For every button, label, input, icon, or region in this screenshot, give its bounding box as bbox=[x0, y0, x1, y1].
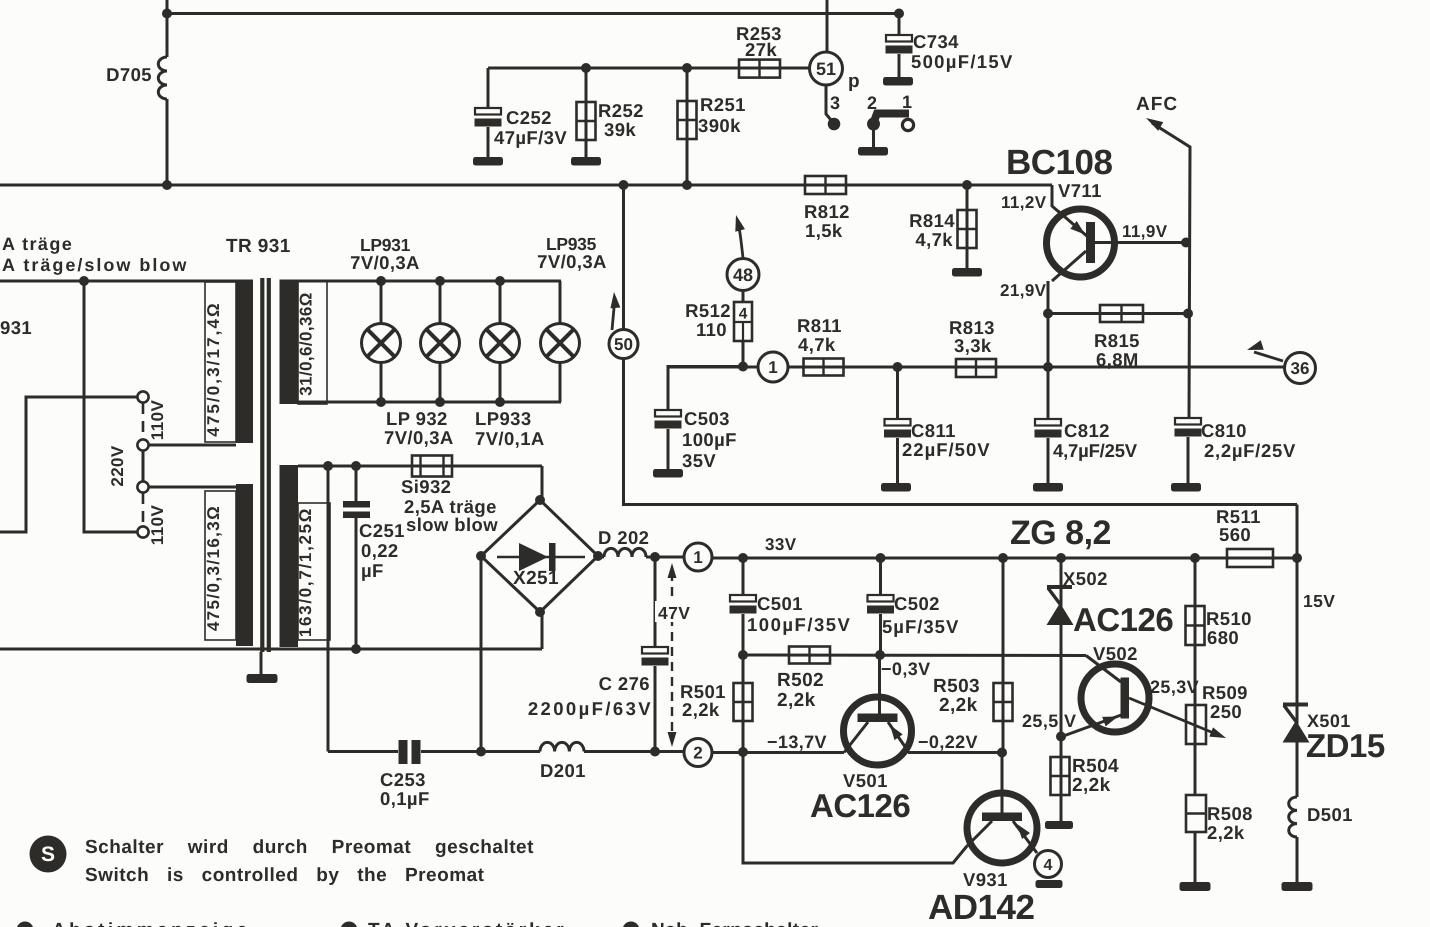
label R814 bbox=[909, 210, 955, 250]
wire 15V column bbox=[1296, 505, 1299, 593]
node junction rail-D705 bbox=[162, 180, 172, 190]
svg-text:C501: C501 bbox=[757, 593, 803, 614]
note line 1 bbox=[85, 837, 534, 858]
label pin 2 bbox=[867, 93, 877, 113]
node 50 bbox=[609, 330, 638, 359]
svg-text:0,1µF: 0,1µF bbox=[380, 788, 430, 809]
svg-text:LP933: LP933 bbox=[475, 408, 532, 429]
label C 276 bbox=[528, 673, 653, 719]
wire to node 2 bbox=[655, 750, 684, 753]
svg-text:Si932: Si932 bbox=[401, 476, 451, 497]
label A träge bbox=[2, 234, 73, 254]
node junction rail x=623 bbox=[619, 180, 629, 190]
transformer primary upper winding bbox=[236, 280, 253, 444]
svg-text:33V: 33V bbox=[765, 535, 797, 554]
wire bottom rail to C253 bbox=[328, 750, 398, 753]
svg-text:D 202: D 202 bbox=[598, 527, 649, 548]
label C253 bbox=[380, 769, 430, 809]
transformer core ground stub bbox=[260, 652, 263, 675]
label D201 bbox=[540, 760, 586, 781]
svg-text:−13,7V: −13,7V bbox=[767, 732, 827, 752]
node junction C502 top bbox=[876, 553, 886, 563]
label box winding 17,4 bbox=[205, 282, 236, 442]
lamp LP931 bbox=[362, 276, 401, 407]
svg-text:V931: V931 bbox=[963, 869, 1008, 890]
svg-text:AC126: AC126 bbox=[810, 787, 910, 824]
svg-text:X502: X502 bbox=[1063, 568, 1108, 589]
node junction R510 top bbox=[1190, 553, 1200, 563]
zener diode X502 bbox=[1047, 558, 1074, 736]
wire lamp top rail bbox=[298, 280, 561, 283]
svg-text:110: 110 bbox=[696, 319, 727, 340]
svg-text:AC126: AC126 bbox=[1073, 601, 1173, 638]
resistor R512 with 4 bbox=[734, 290, 752, 366]
label A träge/slow blow bbox=[2, 255, 188, 275]
svg-text:R252: R252 bbox=[598, 100, 644, 121]
label C502 bbox=[882, 593, 959, 637]
node 48 bbox=[727, 259, 759, 291]
svg-text:−0,22V: −0,22V bbox=[918, 732, 978, 752]
svg-text:S: S bbox=[41, 843, 55, 866]
wire V931 base column bbox=[1001, 753, 1004, 814]
ground node 4 bbox=[1036, 880, 1063, 888]
node junction C276 top bbox=[650, 552, 660, 562]
label C812 bbox=[1053, 420, 1138, 461]
note S badge bbox=[30, 836, 67, 873]
label 15V bbox=[1303, 591, 1335, 611]
wire V711 emitter column bbox=[1047, 281, 1050, 419]
svg-text:110V: 110V bbox=[148, 505, 167, 546]
wire tap upper to primary bbox=[149, 444, 237, 447]
label R512 bbox=[685, 300, 731, 340]
svg-text:36: 36 bbox=[1291, 359, 1310, 378]
label LP931 bbox=[350, 235, 420, 273]
svg-text:11,9V: 11,9V bbox=[1122, 222, 1168, 241]
ground C810 bbox=[1171, 483, 1201, 492]
svg-text:100µF/35V: 100µF/35V bbox=[747, 614, 851, 635]
capacitor C812 bbox=[1035, 419, 1062, 484]
wire dashed tap upper bbox=[142, 403, 145, 439]
svg-text:4,7µF/25V: 4,7µF/25V bbox=[1053, 440, 1138, 461]
svg-text:Schalter wird durch Preomat: Schalter wird durch Preomat geschaltet bbox=[85, 837, 534, 858]
capacitor C734 bbox=[886, 14, 913, 79]
label X502 bbox=[1063, 568, 1108, 589]
resistor R510 bbox=[1186, 558, 1205, 744]
svg-text:2,2k: 2,2k bbox=[682, 699, 720, 720]
arrow node 36 bbox=[1247, 340, 1283, 361]
wire dashed tap lower bbox=[142, 493, 145, 526]
svg-text:7V/0,3A: 7V/0,3A bbox=[384, 427, 454, 448]
svg-text:C812: C812 bbox=[1064, 420, 1110, 441]
legend symbol 3 bbox=[623, 922, 640, 927]
label R815 bbox=[1094, 330, 1140, 370]
label 110V bottom bbox=[148, 505, 167, 546]
svg-text:C502: C502 bbox=[894, 593, 940, 614]
svg-text:1,5k: 1,5k bbox=[805, 220, 843, 241]
fuse Si932 bbox=[412, 456, 452, 477]
label V711 bbox=[1058, 180, 1102, 201]
wire lamp bottom rail bbox=[298, 401, 561, 404]
wire 220V solid segment bbox=[142, 451, 145, 481]
terminal 110V top bbox=[137, 391, 148, 402]
svg-text:C251: C251 bbox=[359, 520, 405, 541]
svg-text:7V/0,3A: 7V/0,3A bbox=[350, 252, 420, 273]
wire pin2 to ground bbox=[872, 129, 875, 148]
svg-text:A träge/slow blow: A träge/slow blow bbox=[2, 255, 188, 275]
node junction C811 top bbox=[893, 362, 903, 372]
wire node50 to ZG rail bbox=[624, 358, 1298, 505]
svg-text:475/0,3/17,4Ω: 475/0,3/17,4Ω bbox=[204, 301, 223, 436]
svg-text:390k: 390k bbox=[698, 115, 741, 136]
label p bbox=[848, 71, 860, 92]
wire AFC line bbox=[1152, 123, 1190, 418]
wire pin 3 bbox=[826, 85, 831, 120]
svg-text:TR 931: TR 931 bbox=[226, 236, 291, 257]
node 1 output bbox=[684, 543, 712, 571]
transistor V931 bbox=[967, 793, 1037, 863]
resistor R504 bbox=[1051, 737, 1070, 823]
label AC126 V501 bbox=[810, 787, 910, 824]
svg-text:p: p bbox=[848, 71, 860, 92]
svg-text:AD142: AD142 bbox=[928, 888, 1034, 927]
svg-text:C252: C252 bbox=[506, 107, 552, 128]
svg-text:D501: D501 bbox=[1307, 804, 1353, 825]
label 47V bbox=[655, 601, 702, 623]
wire primary top rail bbox=[0, 280, 236, 283]
svg-text:ZG 8,2: ZG 8,2 bbox=[1010, 514, 1111, 552]
wire V931 collector return bbox=[743, 752, 967, 863]
svg-text:4: 4 bbox=[1044, 857, 1053, 874]
svg-text:1: 1 bbox=[902, 92, 912, 112]
wire -0,3V bus bbox=[743, 654, 1086, 658]
wire y=68 bus bbox=[488, 67, 809, 70]
svg-text:Abstimmanzeige: Abstimmanzeige bbox=[52, 920, 251, 927]
label 110V top bbox=[148, 400, 167, 441]
capacitor C810 bbox=[1175, 418, 1202, 484]
wire top rail y=13 bbox=[167, 12, 899, 15]
node junction primary rail bbox=[79, 276, 89, 286]
svg-text:2,2k: 2,2k bbox=[1072, 775, 1111, 796]
svg-text:475/0,3/16,3Ω: 475/0,3/16,3Ω bbox=[204, 505, 223, 631]
node junction emitter main bbox=[1043, 362, 1053, 372]
label R251 bbox=[698, 94, 746, 136]
svg-text:R812: R812 bbox=[804, 201, 850, 222]
label AFC bbox=[1136, 94, 1178, 115]
svg-text:15V: 15V bbox=[1303, 591, 1335, 611]
capacitor C503 bbox=[655, 367, 744, 471]
wire node50 column bbox=[622, 185, 625, 330]
label C734 bbox=[911, 31, 1014, 72]
svg-text:2: 2 bbox=[867, 93, 877, 113]
label R252 bbox=[598, 100, 644, 140]
node junction top-left bbox=[162, 9, 172, 19]
inductor D202 bbox=[598, 548, 684, 557]
label C501 bbox=[747, 593, 851, 635]
label winding 475/0,3/16,3 bbox=[204, 505, 223, 631]
wire AC2 column bbox=[327, 466, 330, 752]
terminal 220V bottom bbox=[137, 481, 148, 492]
transformer secondary lower winding bbox=[280, 465, 299, 647]
inductor D501 bbox=[1289, 797, 1297, 837]
node junction R815 right bbox=[1183, 309, 1193, 319]
node junction 15V top bbox=[1292, 553, 1302, 563]
capacitor C252 bbox=[475, 68, 502, 158]
terminal 110V bottom bbox=[137, 526, 148, 537]
resistor R813 bbox=[956, 359, 996, 377]
svg-text:35V: 35V bbox=[682, 450, 716, 471]
lamp LP935 bbox=[541, 281, 580, 402]
capacitor C253 bbox=[399, 740, 541, 764]
svg-text:7V/0,1A: 7V/0,1A bbox=[475, 428, 545, 449]
svg-text:BC108: BC108 bbox=[1006, 143, 1112, 182]
svg-text:R504: R504 bbox=[1072, 756, 1119, 777]
resistor R501 bbox=[734, 655, 753, 752]
svg-text:TA Vorverstärker: TA Vorverstärker bbox=[368, 920, 567, 927]
node junction rail x=967 bbox=[962, 180, 972, 190]
svg-text:D201: D201 bbox=[540, 760, 586, 781]
ground switch bbox=[858, 147, 888, 156]
wire -13,7V bbox=[712, 751, 844, 754]
wire stub to node 51 bbox=[826, 0, 829, 53]
node junction C251 bottom bbox=[351, 644, 361, 654]
label V502 bbox=[1093, 643, 1138, 664]
legend symbol 1 bbox=[17, 922, 34, 927]
label R811 bbox=[797, 315, 842, 355]
label C811 bbox=[902, 420, 991, 460]
svg-text:3: 3 bbox=[830, 93, 840, 113]
label R504 bbox=[1072, 756, 1119, 796]
svg-text:C811: C811 bbox=[911, 420, 956, 441]
svg-text:R814: R814 bbox=[909, 210, 955, 231]
capacitor C502 bbox=[867, 558, 894, 655]
label -0,3V bbox=[881, 659, 931, 679]
node junction C251 top bbox=[351, 461, 361, 471]
label box winding 1,25 bbox=[298, 503, 330, 640]
label pin 1 bbox=[902, 92, 912, 112]
arrow 47V measure bbox=[668, 563, 677, 747]
ground R508 bbox=[1180, 882, 1211, 891]
svg-text:2200µF/63V: 2200µF/63V bbox=[528, 698, 653, 719]
svg-text:C253: C253 bbox=[380, 769, 426, 790]
label R812 bbox=[804, 201, 850, 241]
label -13,7V bbox=[767, 732, 827, 752]
label R508 bbox=[1207, 803, 1253, 843]
svg-text:R508: R508 bbox=[1207, 803, 1253, 824]
wire R815 bus bbox=[1048, 312, 1188, 315]
label box winding 0,36 bbox=[298, 281, 327, 404]
node junction emitter R815 bbox=[1043, 309, 1053, 319]
label D705 bbox=[106, 64, 152, 85]
svg-text:AFC: AFC bbox=[1136, 94, 1178, 115]
label V501 bbox=[843, 770, 888, 791]
svg-text:C 276: C 276 bbox=[599, 673, 650, 694]
node junction R252 top bbox=[581, 63, 591, 73]
svg-text:0,22: 0,22 bbox=[361, 540, 399, 561]
ground core bbox=[247, 674, 278, 683]
zener diode X501 ZD15 bbox=[1283, 592, 1310, 797]
label R501 bbox=[680, 681, 726, 720]
wire D501 to ground bbox=[1296, 837, 1299, 883]
svg-text:C734: C734 bbox=[913, 31, 959, 52]
resistor R252 bbox=[577, 68, 596, 158]
svg-text:3,3k: 3,3k bbox=[954, 335, 992, 356]
node junction bridge neg rail bbox=[476, 747, 486, 757]
node junction x=328 bbox=[323, 461, 333, 471]
svg-text:R510: R510 bbox=[1206, 608, 1252, 629]
svg-text:22µF/50V: 22µF/50V bbox=[902, 439, 991, 460]
svg-text:11,2V: 11,2V bbox=[1001, 193, 1047, 212]
label winding 163/0,7/1,25 bbox=[296, 507, 315, 637]
label LP935 bbox=[537, 234, 607, 272]
svg-text:D705: D705 bbox=[106, 64, 152, 85]
label R813 bbox=[949, 317, 995, 356]
svg-text:R512: R512 bbox=[685, 300, 731, 321]
label V931 bbox=[963, 869, 1008, 890]
svg-text:LP 932: LP 932 bbox=[386, 408, 448, 429]
svg-text:2,2µF/25V: 2,2µF/25V bbox=[1204, 440, 1296, 461]
svg-text:A träge: A träge bbox=[2, 234, 73, 254]
transformer primary lower winding bbox=[236, 484, 253, 646]
label BC108 bbox=[1006, 143, 1112, 182]
svg-text:31/0,6/0,36Ω: 31/0,6/0,36Ω bbox=[297, 292, 316, 396]
label 25,5 V bbox=[1022, 711, 1076, 731]
capacitor C251 bbox=[343, 466, 370, 649]
svg-text:R811: R811 bbox=[797, 315, 842, 336]
svg-text:V711: V711 bbox=[1058, 180, 1102, 201]
svg-text:47µF/3V: 47µF/3V bbox=[494, 127, 567, 148]
label AC126 V502 bbox=[1073, 601, 1173, 638]
terminal 220V top bbox=[137, 439, 148, 450]
legend label Abstimmanzeige bbox=[52, 920, 251, 927]
lamp LP932 bbox=[421, 276, 460, 407]
svg-text:ZD15: ZD15 bbox=[1306, 727, 1385, 764]
svg-text:51: 51 bbox=[816, 59, 836, 79]
arrow node 50 bbox=[610, 292, 620, 330]
wire C501 column bbox=[742, 558, 745, 595]
svg-text:1: 1 bbox=[768, 358, 777, 377]
svg-text:500µF/15V: 500µF/15V bbox=[911, 51, 1014, 72]
label R511 bbox=[1216, 506, 1261, 545]
label R502 bbox=[777, 670, 824, 711]
label C252 bbox=[494, 107, 567, 148]
svg-text:27k: 27k bbox=[745, 39, 777, 60]
label winding 31/0,6/0,36 bbox=[297, 292, 316, 396]
node junction C501 top bbox=[738, 553, 748, 563]
pin 1 contact bbox=[902, 119, 913, 130]
transformer core bbox=[262, 278, 269, 652]
label X501 bbox=[1307, 711, 1351, 731]
label -0,22V bbox=[918, 732, 978, 752]
svg-text:560: 560 bbox=[1219, 524, 1251, 545]
arrow AFC bbox=[1146, 118, 1163, 131]
resistor R503 bbox=[994, 558, 1013, 753]
ground C252 bbox=[473, 157, 503, 166]
resistor R511 bbox=[1227, 549, 1273, 567]
label ZD15 bbox=[1306, 727, 1385, 764]
svg-text:4,7k: 4,7k bbox=[915, 229, 953, 250]
legend label Nab. Fernschalter bbox=[651, 920, 819, 927]
wire mains N bbox=[84, 281, 138, 532]
node 2 output bbox=[684, 739, 712, 767]
node 4 bbox=[1035, 851, 1062, 878]
svg-text:21,9V: 21,9V bbox=[1000, 281, 1047, 300]
svg-text:2,2k: 2,2k bbox=[1207, 822, 1245, 843]
resistor R502 bbox=[789, 647, 830, 664]
node junction emitter R504 bbox=[1056, 732, 1066, 742]
label D 202 bbox=[598, 527, 649, 548]
wire 33V rail bbox=[712, 557, 1297, 560]
node junction C502 bottom bbox=[875, 650, 885, 660]
svg-text:Switch is controlled by th: Switch is controlled by the Preomat bbox=[85, 865, 485, 886]
svg-text:220V: 220V bbox=[108, 445, 127, 487]
legend symbol 2 bbox=[341, 922, 358, 927]
svg-text:4: 4 bbox=[739, 306, 748, 323]
svg-text:163/0,7/1,25Ω: 163/0,7/1,25Ω bbox=[296, 507, 315, 637]
lamp LP933 bbox=[481, 276, 520, 407]
ground C812 bbox=[1033, 483, 1063, 492]
svg-text:R815: R815 bbox=[1094, 330, 1140, 351]
inductor D705 bbox=[158, 57, 167, 99]
label R510 bbox=[1206, 608, 1252, 648]
label pin 3 bbox=[830, 93, 840, 113]
bridge rectifier X251 bbox=[476, 495, 603, 617]
svg-text:−0,3V: −0,3V bbox=[881, 659, 931, 679]
svg-text:slow blow: slow blow bbox=[406, 514, 498, 535]
resistor R508 bbox=[1186, 795, 1206, 883]
label box winding 16,3 bbox=[205, 491, 236, 640]
ground C503 bbox=[653, 469, 683, 478]
wire main y=367 bbox=[668, 366, 1285, 369]
label 25,3V bbox=[1150, 677, 1199, 697]
svg-text:R503: R503 bbox=[933, 676, 980, 697]
potentiometer R509 bbox=[1186, 705, 1206, 744]
label C810 bbox=[1201, 420, 1296, 461]
label X251 bbox=[513, 568, 559, 589]
label winding 475/0,3/17,4 bbox=[204, 301, 223, 436]
node junction C276 bottom bbox=[650, 747, 660, 757]
label 931 cut bbox=[0, 317, 32, 338]
switch blade pins 2-1 bbox=[873, 114, 909, 125]
svg-text:47V: 47V bbox=[658, 603, 690, 623]
node 1 inline bbox=[758, 352, 788, 382]
capacitor C501 bbox=[730, 595, 757, 655]
label R509 bbox=[1202, 682, 1248, 722]
wire main rail y=185 bbox=[0, 184, 1052, 187]
potentiometer wiper arrow bbox=[1129, 698, 1226, 738]
label TR 931 bbox=[226, 236, 291, 257]
ground R504 bbox=[1045, 821, 1073, 829]
svg-text:100µF: 100µF bbox=[682, 429, 737, 450]
svg-text:25,3V: 25,3V bbox=[1150, 677, 1199, 697]
svg-text:R251: R251 bbox=[700, 94, 746, 115]
svg-text:2,2k: 2,2k bbox=[777, 690, 816, 711]
svg-text:250: 250 bbox=[1210, 701, 1242, 722]
label Si932 bbox=[401, 476, 498, 535]
transformer secondary upper winding bbox=[280, 280, 299, 405]
label 11,9V bbox=[1122, 222, 1168, 241]
resistor R811 bbox=[804, 359, 844, 376]
wire secondary top rail bbox=[298, 466, 542, 500]
legend label TA Vorverstärker bbox=[368, 920, 567, 927]
svg-text:X251: X251 bbox=[513, 568, 559, 589]
node 51 bbox=[810, 52, 843, 85]
node junction AFC base bbox=[1181, 238, 1191, 248]
wire vertical left feed bbox=[166, 0, 169, 185]
svg-text:R509: R509 bbox=[1202, 682, 1248, 703]
node junction R503 top bbox=[998, 553, 1008, 563]
wire -0,22V bbox=[908, 751, 1002, 754]
svg-text:48: 48 bbox=[733, 265, 753, 285]
